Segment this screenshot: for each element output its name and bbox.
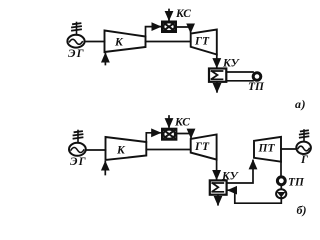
waste-heat boiler КУ (top) xyxy=(209,69,226,82)
wire ГТ-КУ (top) xyxy=(216,55,218,68)
svg-text:ТП: ТП xyxy=(288,177,305,189)
svg-text:а): а) xyxy=(295,97,306,111)
wire shaft ПТ-Г xyxy=(281,148,297,150)
svg-text:Г: Г xyxy=(300,154,308,166)
wire ПТ-ТП xyxy=(280,162,282,176)
wire К-КС (bottom) xyxy=(146,133,160,142)
compressor К (top) xyxy=(105,31,146,53)
wire ГТ-КУ (bottom) xyxy=(216,160,218,179)
wire shaft ЭГ-К (bottom) xyxy=(86,149,106,151)
gas turbine ГТ (bottom) xyxy=(191,135,217,160)
wire shaft К-ГТ (bottom) xyxy=(146,149,190,151)
pipe КУ-ТП lower (top) xyxy=(226,80,253,82)
return wire ТП-КУ xyxy=(228,190,281,203)
wire shaft ЭГ-К (top) xyxy=(85,41,105,43)
svg-text:К: К xyxy=(114,37,124,49)
air inlet arrow (top) xyxy=(104,54,106,65)
generator Г xyxy=(296,130,311,154)
waste-heat boiler КУ (bottom) xyxy=(210,180,227,194)
pipe КУ-ТП upper (top) xyxy=(226,71,253,73)
exhaust arrow from КУ (top) xyxy=(216,82,218,92)
generator ЭГ (bottom, б) xyxy=(69,131,86,156)
svg-text:КС: КС xyxy=(174,117,190,129)
wire К-КС (top) xyxy=(146,27,161,37)
svg-text:б): б) xyxy=(297,203,307,217)
combustion chamber КС (top) xyxy=(162,22,176,33)
generator EG (top, а) xyxy=(67,23,84,48)
svg-text:ТП: ТП xyxy=(248,81,265,93)
steam line КУ-ПТ xyxy=(227,161,253,184)
exhaust arrow from КУ (bottom) xyxy=(217,195,219,205)
wire shaft К-ГТ (top) xyxy=(146,41,191,43)
combustion chamber КС (bottom) xyxy=(162,129,176,140)
svg-text:ЭГ: ЭГ xyxy=(68,48,85,60)
wire between ТП rings xyxy=(280,185,282,189)
svg-text:ПТ: ПТ xyxy=(258,143,276,155)
svg-text:ЭГ: ЭГ xyxy=(70,156,87,168)
air inlet arrow (bottom) xyxy=(104,162,106,175)
heat consumer ТП ring upper xyxy=(277,177,285,185)
svg-text:КС: КС xyxy=(175,8,191,20)
gas turbine ГТ (top) xyxy=(191,30,217,55)
svg-text:К: К xyxy=(116,145,126,157)
wire КС-ГТ (top) xyxy=(176,27,191,32)
heat consumer ТП ring (top) xyxy=(253,73,261,81)
wire КС-ГТ (bottom) xyxy=(176,134,191,138)
pump (lower circle of ТП loop) xyxy=(276,189,286,198)
compressor К (bottom) xyxy=(106,137,147,160)
fuel arrow into КС (bottom) xyxy=(168,116,170,127)
svg-text:ГТ: ГТ xyxy=(194,36,210,48)
fuel arrow into КС (top) xyxy=(168,10,170,20)
steam turbine ПТ xyxy=(254,137,281,162)
svg-text:ГТ: ГТ xyxy=(194,141,210,153)
